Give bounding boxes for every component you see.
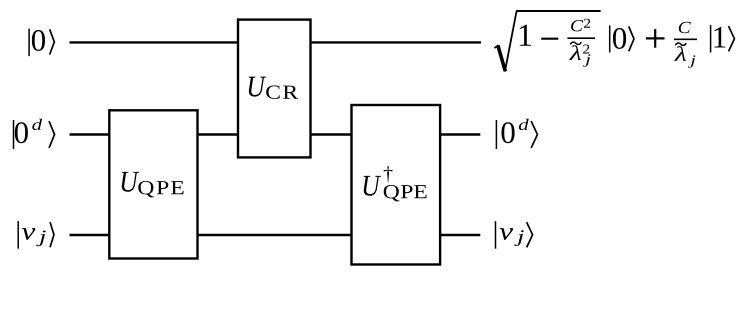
gate U_QPE box	[109, 110, 197, 258]
plus sign	[646, 29, 665, 48]
input ket |0^d> on wire q1	[14, 119, 55, 149]
denominator subscript j 2	[688, 55, 695, 67]
denominator exponent 2	[583, 45, 589, 54]
gate U_QPE-dagger label	[364, 166, 427, 201]
gate U_QPE-dagger box	[352, 105, 441, 265]
output ket |v_j> on wire q2	[496, 221, 533, 249]
denominator lambda 1	[569, 45, 581, 60]
input ket |v_j> on wire q2	[18, 221, 54, 249]
numerator C	[571, 20, 583, 31]
ket |1> in formula	[711, 25, 735, 53]
gate U_CR box	[238, 20, 311, 158]
tilde over lambda 2	[675, 43, 686, 45]
ket |0> in formula	[610, 25, 634, 52]
radicand digit 1	[520, 25, 531, 46]
tilde over lambda 1	[570, 42, 581, 44]
wire q1 (|0^d> rail)	[70, 133, 481, 135]
fraction bar C^2 / lambda^2	[567, 37, 595, 39]
gate U_CR label	[249, 77, 298, 99]
denominator lambda 2	[674, 46, 686, 61]
numerator C 2nd	[679, 22, 691, 33]
radical sign	[494, 11, 600, 72]
output ket |0^d> on wire q1	[496, 119, 537, 149]
wire q0 (|0> rail)	[70, 41, 482, 43]
minus sign	[541, 38, 558, 40]
denominator subscript j 1	[583, 54, 590, 66]
wire q2 (|v_j> rail)	[70, 234, 481, 236]
input ket |0> on wire q0	[29, 29, 54, 56]
gate U_QPE label	[122, 172, 184, 198]
numerator exponent 2	[584, 19, 590, 28]
fraction bar C / lambda	[674, 38, 697, 40]
